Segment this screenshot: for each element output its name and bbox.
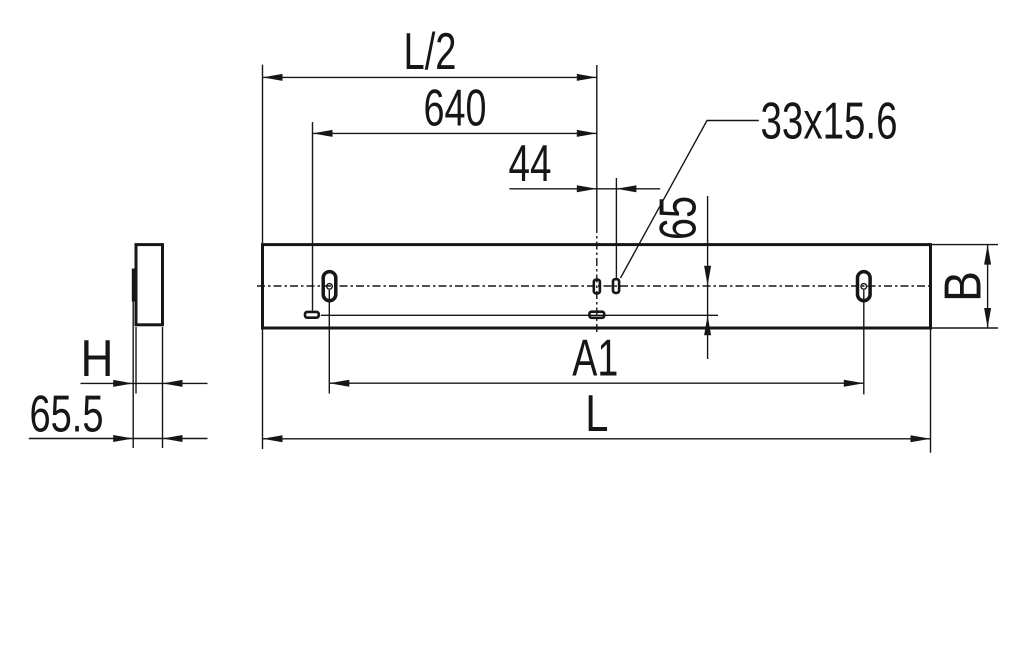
dimension L/2 — [263, 22, 597, 81]
horizontal centerline — [257, 285, 932, 287]
svg-text:640: 640 — [424, 79, 487, 137]
dimension A1 — [329, 329, 864, 387]
extension line side protrusion — [132, 302, 134, 449]
small horizontal slot center — [589, 312, 604, 318]
slot row reference line — [321, 314, 718, 316]
small vertical slot 33x15.6 — [613, 279, 619, 293]
svg-text:65: 65 — [649, 196, 707, 240]
vertical centerline (mid of luminaire) — [596, 225, 598, 333]
small vertical slot at centerline — [594, 280, 600, 294]
extension line 44 right — [615, 178, 617, 278]
extension line from left keyhole down — [328, 290, 330, 394]
dimension L — [263, 384, 931, 442]
small horizontal slot left — [305, 312, 319, 318]
dimension 65.5 — [29, 385, 208, 443]
dimension 65 (vertical) — [649, 196, 711, 359]
svg-text:B: B — [934, 271, 992, 302]
side view slot edge (protrusion) — [132, 269, 135, 302]
svg-text:65.5: 65.5 — [30, 385, 104, 443]
dimension 640 — [313, 79, 597, 137]
extension lines B — [932, 244, 998, 246]
main housing outline (front view) — [263, 245, 931, 328]
extension line from right keyhole down — [863, 290, 865, 394]
extension line side left edge — [135, 327, 137, 394]
dimension 44 — [509, 134, 661, 192]
keyhole slot right — [858, 272, 871, 301]
extension line L right — [930, 330, 932, 453]
leader line 33x15.6 — [621, 91, 898, 278]
svg-text:L: L — [585, 384, 608, 442]
extension line L left — [262, 330, 264, 450]
extension line center up (L/2,640) — [596, 65, 598, 225]
side view outline — [136, 245, 163, 325]
extension line side right edge — [162, 327, 164, 448]
svg-text:L/2: L/2 — [404, 22, 457, 80]
dimension B (vertical) — [934, 245, 992, 328]
svg-text:33x15.6: 33x15.6 — [761, 91, 898, 149]
svg-text:H: H — [81, 329, 114, 387]
svg-text:44: 44 — [509, 134, 552, 192]
extension line 640 left — [312, 122, 314, 311]
keyhole slot left — [323, 272, 336, 301]
extension line left edge up (L/2) — [262, 65, 264, 243]
svg-text:A1: A1 — [572, 329, 618, 387]
dimension H — [81, 329, 208, 387]
